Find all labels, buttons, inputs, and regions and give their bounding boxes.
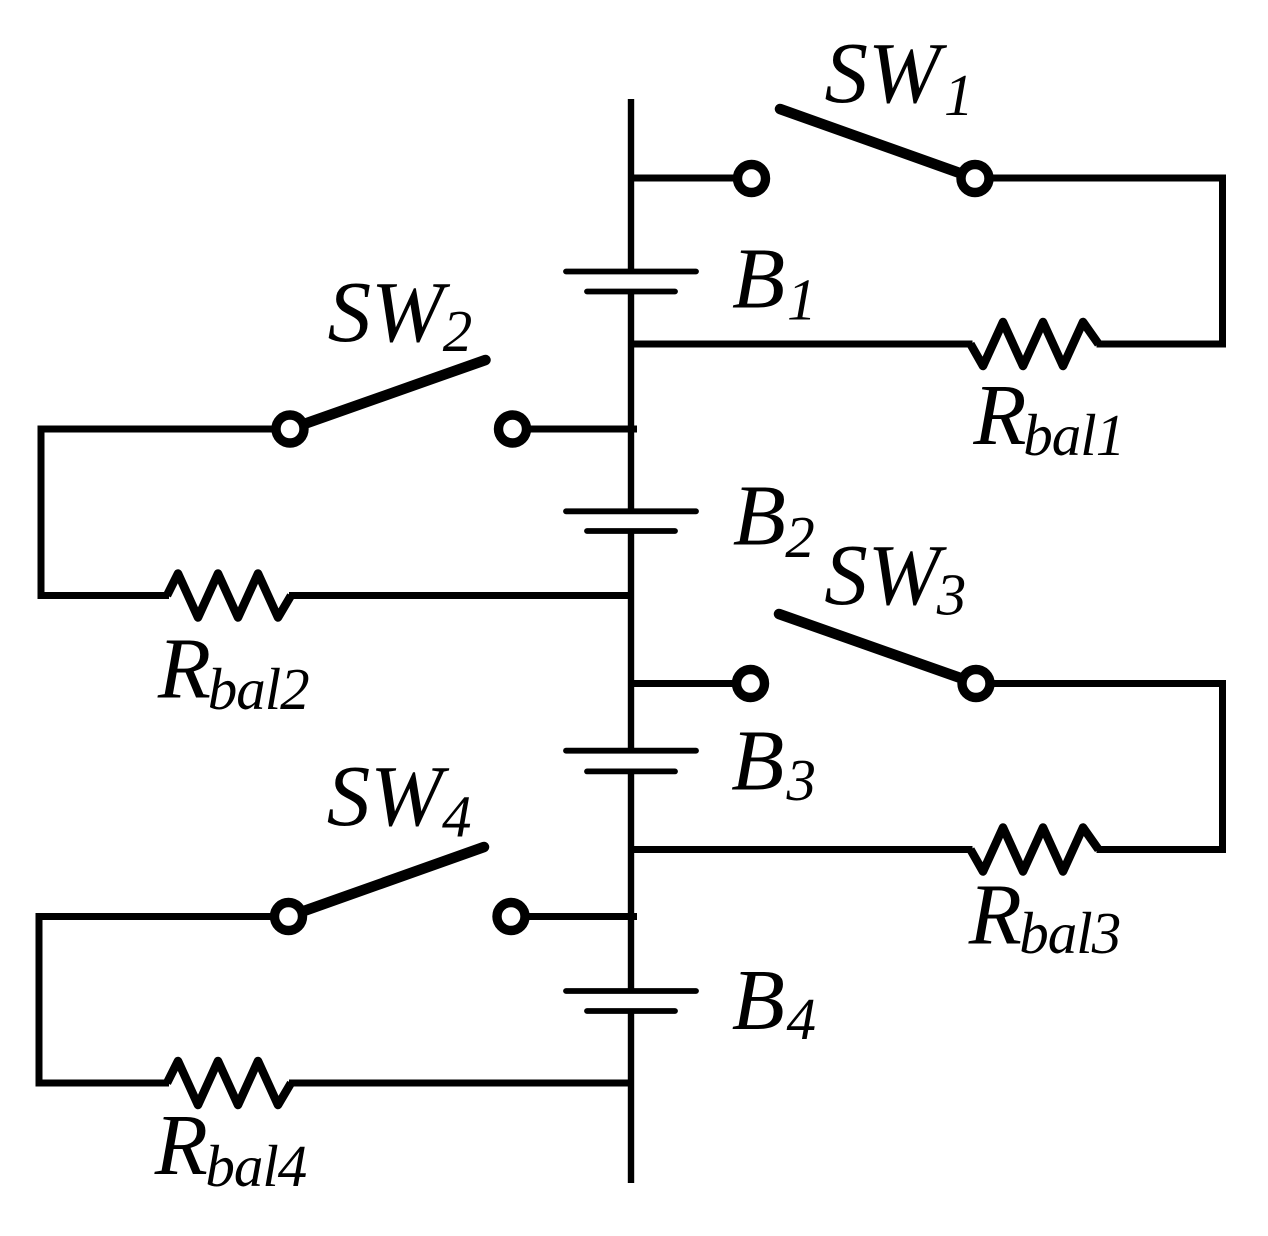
svg-text:SW: SW (328, 263, 452, 360)
battery B2 (566, 511, 696, 531)
wire SW2 right stub to bus (513, 426, 638, 433)
svg-text:R: R (157, 619, 211, 716)
wire main vertical bus segment 1 (628, 99, 634, 272)
wire main vertical bus segment 5 (628, 1011, 634, 1183)
wire main vertical bus segment 2 (628, 292, 634, 512)
svg-text:bal1: bal1 (1023, 402, 1124, 468)
svg-text:3: 3 (936, 562, 966, 628)
switch SW3 left contact circle (737, 670, 765, 698)
switch SW3 right contact circle (962, 670, 990, 698)
svg-text:1: 1 (944, 62, 973, 128)
wire main vertical bus segment 4 (628, 771, 634, 991)
svg-text:4: 4 (787, 986, 816, 1052)
svg-text:2: 2 (785, 504, 814, 570)
wire SW1 left stub (631, 175, 752, 182)
svg-text:SW: SW (327, 747, 451, 844)
switch SW4 arm (289, 847, 485, 917)
svg-text:SW: SW (824, 526, 948, 623)
battery B3 (566, 751, 696, 772)
switch SW1 arm (780, 109, 975, 179)
resistor Rbal3 zigzag (971, 828, 1099, 872)
svg-text:R: R (968, 865, 1022, 962)
switch SW3 arm (779, 614, 976, 684)
wire SW1 right stub, right rail and resistor Rbal1 loop (631, 178, 1223, 344)
switch SW2 right contact circle (499, 415, 527, 443)
svg-text:3: 3 (786, 747, 816, 813)
wire SW3 right stub, right rail and resistor Rbal3 loop (631, 684, 1223, 850)
wire SW4 right stub to bus (511, 913, 637, 920)
svg-text:B: B (731, 712, 784, 809)
wire main vertical bus segment 3 (628, 531, 634, 751)
svg-text:R: R (154, 1096, 208, 1193)
switch SW4 left contact circle (275, 903, 303, 931)
wire SW3 left stub (631, 680, 751, 687)
switch SW2 arm (290, 360, 486, 429)
svg-text:B: B (732, 951, 785, 1048)
resistor Rbal4 zigzag (167, 1061, 291, 1105)
resistor Rbal1 zigzag (971, 322, 1099, 366)
wire SW2 left wire, left rail and resistor Rbal2 loop (41, 429, 631, 596)
svg-text:bal4: bal4 (205, 1133, 306, 1199)
switch SW4 right contact circle (497, 903, 525, 931)
resistor Rbal2 zigzag (167, 574, 291, 618)
svg-text:SW: SW (825, 24, 949, 121)
svg-text:bal3: bal3 (1019, 900, 1120, 966)
svg-text:bal2: bal2 (208, 656, 309, 722)
svg-text:B: B (733, 467, 786, 564)
battery B1 (566, 272, 696, 292)
svg-text:1: 1 (787, 267, 816, 333)
svg-text:B: B (732, 230, 785, 327)
switch SW1 left contact circle (738, 165, 766, 193)
svg-text:4: 4 (442, 784, 471, 850)
switch SW2 left contact circle (276, 415, 304, 443)
battery B4 (566, 991, 696, 1011)
switch SW1 right contact circle (961, 165, 989, 193)
svg-text:R: R (972, 366, 1026, 463)
svg-text:2: 2 (443, 298, 472, 364)
wire SW4 left wire, left rail and resistor Rbal4 loop (39, 917, 631, 1084)
